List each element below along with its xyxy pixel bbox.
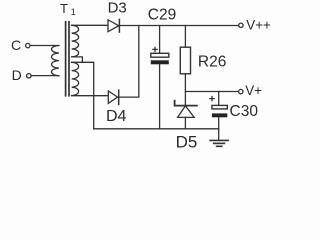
- wire secondary upper end to center-tap bus: [72, 57, 83, 62]
- resistor R26 top lead: [184, 26, 186, 48]
- svg-text:D3: D3: [108, 0, 127, 17]
- svg-text:D: D: [12, 67, 22, 83]
- wire C to transformer primary top: [30, 45, 59, 47]
- resistor R26 bottom lead to V+ node: [184, 74, 186, 92]
- transformer T1 primary winding: [52, 46, 59, 76]
- capacitor C30 top lead: [218, 92, 220, 106]
- terminal V+: [239, 89, 243, 93]
- capacitor C29 positive plate: [151, 53, 169, 57]
- capacitor C29 bottom lead to ground rail: [159, 64, 161, 129]
- svg-text:R26: R26: [198, 53, 226, 70]
- transformer T1 core: [66, 22, 69, 96]
- terminal D (input pad): [27, 74, 31, 78]
- svg-text:D5: D5: [176, 133, 198, 152]
- capacitor C29 top lead: [159, 26, 161, 54]
- svg-text:T: T: [60, 1, 68, 16]
- terminal C (input pad): [26, 43, 30, 47]
- zener diode D5 triangle: [178, 106, 195, 118]
- svg-text:C30: C30: [230, 103, 259, 120]
- wire D to transformer primary bottom: [31, 75, 59, 77]
- svg-text:1: 1: [71, 7, 76, 17]
- wire secondary bottom to D4 anode: [72, 95, 109, 97]
- wire center tap to ground rail: [72, 62, 94, 129]
- svg-text:D4: D4: [106, 108, 127, 125]
- svg-text:V++: V++: [246, 18, 271, 33]
- capacitor C30 negative plate: [212, 113, 227, 117]
- diode D4: [108, 90, 118, 104]
- transformer T1 secondary winding lower half: [72, 62, 79, 95]
- label T1: [60, 1, 76, 17]
- capacitor C29 plus sign: [153, 47, 157, 51]
- wire top rail (secondary top to D3 anode): [72, 24, 108, 26]
- resistor R26 body: [180, 47, 190, 74]
- capacitor C29 negative plate: [151, 60, 169, 64]
- terminal V++: [239, 23, 243, 27]
- capacitor C30 bottom lead to ground: [218, 117, 220, 140]
- svg-text:C: C: [11, 37, 21, 53]
- svg-text:C29: C29: [148, 6, 176, 23]
- wire ground rail: [94, 128, 219, 130]
- ground symbol: [210, 140, 228, 146]
- capacitor C30 positive plate: [212, 105, 227, 109]
- zener diode D5 anode lead to ground rail: [184, 117, 186, 128]
- wire D4 cathode up to top rail: [119, 26, 139, 98]
- capacitor C30 plus sign: [210, 97, 214, 101]
- wire D3 cathode to V++ terminal: [119, 25, 238, 27]
- svg-text:V+: V+: [245, 83, 262, 98]
- transformer T1 secondary winding upper half: [72, 25, 79, 57]
- node V+ junction / wire R26-D5: [184, 92, 186, 106]
- zener diode D5 cathode bar: [175, 101, 197, 106]
- diode D3: [108, 19, 119, 32]
- wire V+ rail: [185, 91, 238, 93]
